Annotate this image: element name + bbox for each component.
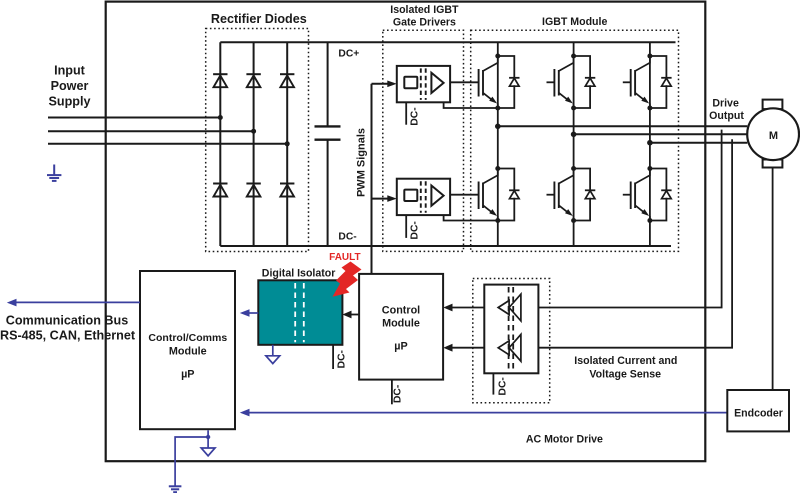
wire: rectifier leg 3 (286, 42, 288, 246)
svg-text:Rectifier Diodes: Rectifier Diodes (211, 12, 307, 26)
node: phase2-leg2 junction (251, 129, 256, 134)
wire: input phase line 3 (48, 143, 287, 145)
node: phase3-leg3 junction (285, 141, 290, 146)
wire: IGBT leg 1 vertical (497, 42, 499, 246)
svg-text:Voltage Sense: Voltage Sense (589, 369, 661, 381)
wire: rectifier leg 1 (219, 42, 221, 246)
diode D3 (280, 74, 294, 87)
gate drivers dashed box (383, 30, 464, 251)
svg-text:IGBT Module: IGBT Module (542, 16, 607, 28)
svg-text:Module: Module (169, 345, 207, 357)
gate stub Q3 (623, 81, 631, 83)
capacitor C1 (DC link) (327, 42, 329, 126)
wire: input phase line 2 (48, 130, 254, 132)
control/comms module box (140, 271, 235, 429)
op-amp U1: gate driver 1 (397, 66, 450, 102)
svg-text:µP: µP (394, 341, 407, 353)
transistor Q1 (top leg1) (479, 54, 520, 111)
svg-text:DC-: DC- (409, 107, 420, 126)
transistor Q6 (bottom leg3) (631, 166, 672, 223)
wire: PWM vertical (371, 84, 373, 274)
rectifier dashed box (206, 29, 309, 252)
wire: control module to digital isolator (351, 314, 359, 316)
label: DC- stub isolator (332, 345, 334, 369)
digital isolator (teal) (258, 280, 342, 345)
wire: isolator to comms module (blue) (249, 312, 258, 314)
svg-text:M: M (769, 130, 778, 142)
sense dashed box (473, 279, 550, 403)
svg-text:µP: µP (181, 369, 194, 381)
wire: sense tap A vertical (538, 130, 721, 308)
svg-text:DC-: DC- (497, 377, 508, 396)
wire: input phase line 1 (48, 117, 220, 119)
diode D5 (246, 184, 260, 197)
wire: driver2 output to gate (450, 194, 479, 196)
transistor Q3 (top leg3) (631, 54, 672, 111)
svg-text:DC+: DC+ (338, 49, 359, 60)
outer frame: AC Motor Drive boundary (106, 2, 706, 462)
diode D1 (213, 74, 227, 87)
label: DC- stub driver 1 (405, 102, 407, 124)
svg-text:DC-: DC- (409, 221, 420, 240)
diode D2 (246, 74, 260, 87)
label: DC- stub driver 2 (405, 215, 407, 238)
svg-text:Control/Comms: Control/Comms (148, 332, 227, 344)
endcoder box (727, 390, 789, 431)
label: DC- stub sense (492, 373, 494, 394)
svg-text:Digital Isolator: Digital Isolator (262, 268, 336, 280)
op-amp: isolation amp 1 (498, 294, 521, 321)
svg-text:Control: Control (382, 304, 420, 316)
svg-text:DC-: DC- (393, 384, 404, 403)
wire: sense out 2 to control module (452, 347, 484, 349)
wire: encoder feedback (blue) (249, 412, 727, 414)
wire: sense tap B vertical (538, 139, 732, 348)
wire: motor to encoder (772, 168, 774, 391)
wire: phase output U (498, 125, 748, 127)
ground: below digital isolator (266, 345, 280, 364)
diode D4 (213, 184, 227, 197)
motor M (763, 100, 783, 110)
transistor Q5 (bottom leg2) (554, 166, 595, 223)
op-amp: isolation amp 2 (498, 334, 521, 361)
wire: PWM branch to driver 1 (372, 83, 389, 85)
label: DC- stub control module (391, 380, 393, 405)
wire: driver2 emitter return (444, 215, 498, 220)
wire: IGBT leg 2 vertical (573, 42, 575, 246)
node: phase1-leg1 junction (218, 115, 223, 120)
svg-text:Module: Module (382, 318, 420, 330)
op-amp U2: gate driver 2 (397, 179, 450, 215)
sense inner box (484, 285, 538, 374)
wire: driver1 emitter return (444, 102, 498, 108)
wire: driver1 output to gate (450, 81, 479, 83)
node: phase V (571, 132, 577, 138)
svg-text:Isolated Current and: Isolated Current and (574, 355, 677, 367)
svg-text:Drive: Drive (712, 97, 739, 109)
svg-text:Isolated IGBT: Isolated IGBT (390, 4, 459, 16)
wire: sense out 1 to control module (452, 307, 484, 309)
gate stub Q5 (547, 194, 555, 196)
transistor Q4 (bottom leg1) (479, 166, 520, 223)
svg-text:DC-: DC- (338, 232, 357, 243)
ground network below comms module (175, 430, 208, 485)
gate stub Q2 (547, 81, 555, 83)
wire: phase output V (574, 133, 748, 135)
wire: communication bus (blue) (16, 301, 140, 303)
svg-text:Endcoder: Endcoder (734, 407, 783, 419)
wire: PWM branch to driver 2 (372, 198, 389, 200)
svg-text:AC Motor Drive: AC Motor Drive (526, 434, 603, 446)
svg-text:PWM Signals: PWM Signals (356, 128, 368, 197)
node: phase W (647, 140, 653, 146)
svg-text:DC-: DC- (337, 349, 348, 368)
ground: earth below frame (169, 485, 182, 487)
svg-text:FAULT: FAULT (329, 252, 360, 263)
wire: IGBT leg 3 vertical (649, 42, 651, 246)
svg-text:Communication Bus: Communication Bus (6, 314, 128, 328)
IGBT module dashed box (471, 30, 679, 251)
wire: DC+ rail (220, 41, 675, 43)
svg-text:RS-485, CAN, Ethernet: RS-485, CAN, Ethernet (0, 329, 136, 343)
ground: input supply earth (47, 165, 61, 181)
gate stub Q6 (623, 194, 631, 196)
wire: rectifier leg 2 (253, 42, 255, 246)
lightning bolt (333, 262, 362, 297)
transistor Q2 (top leg2) (554, 54, 595, 111)
wire: DC- rail (220, 245, 671, 247)
isolation barrier dashes (508, 287, 510, 371)
wire: phase output W (650, 142, 747, 144)
svg-text:Input: Input (54, 64, 86, 78)
svg-text:Supply: Supply (49, 95, 91, 109)
node: phase U (495, 124, 501, 130)
svg-text:Gate Drivers: Gate Drivers (393, 17, 456, 29)
control module box (359, 274, 443, 380)
svg-text:Power: Power (51, 79, 89, 93)
svg-text:Output: Output (709, 110, 744, 122)
diode D6 (280, 184, 294, 197)
